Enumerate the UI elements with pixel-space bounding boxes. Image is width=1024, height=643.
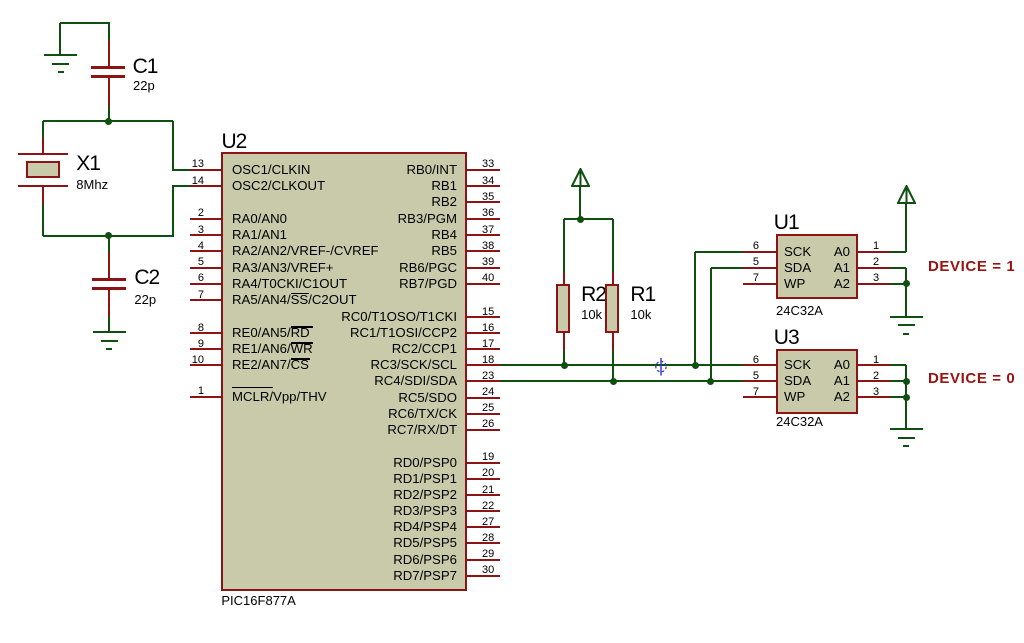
pin 19 number bbox=[482, 452, 494, 463]
pin 34 number bbox=[482, 176, 494, 187]
pin 3 number bbox=[150, 225, 204, 236]
pin label RA0/AN0 bbox=[232, 212, 287, 226]
pin 7 number bbox=[150, 290, 204, 301]
power VCC bbox=[571, 168, 590, 187]
U3 pin 5 number bbox=[705, 371, 759, 382]
label U2 bbox=[222, 131, 247, 152]
U3 pin label A1 bbox=[800, 374, 850, 388]
capacitor C1 bbox=[108, 40, 110, 67]
pin label RB4 bbox=[247, 228, 457, 242]
U3 pin label SCK bbox=[784, 358, 811, 372]
wire bbox=[42, 204, 44, 236]
pin label RB5 bbox=[247, 244, 457, 258]
wire bbox=[43, 235, 173, 237]
value 22p bbox=[134, 293, 156, 306]
label R2 bbox=[581, 284, 606, 305]
wire bbox=[890, 364, 906, 366]
pin 18 lead bbox=[465, 364, 500, 366]
pin 16 lead bbox=[465, 332, 500, 334]
pin 24 number bbox=[482, 387, 494, 398]
pin label RC5/SDO bbox=[247, 391, 457, 405]
U3 pin 6 number bbox=[705, 355, 759, 366]
pin 29 lead bbox=[465, 559, 500, 561]
junction bbox=[692, 362, 699, 369]
pin 9 lead bbox=[190, 348, 221, 350]
wire bbox=[59, 23, 61, 56]
junction bbox=[610, 378, 617, 385]
U3 pin 3 lead bbox=[856, 396, 890, 398]
wire bbox=[905, 365, 907, 381]
pin 10 number bbox=[150, 355, 204, 366]
ground bbox=[0, 0, 1, 1]
wire bbox=[695, 251, 743, 253]
pin label MCLR/Vpp/THV bbox=[232, 390, 327, 404]
pin label OSC2/CLKOUT bbox=[232, 179, 325, 193]
U3 pin 1 lead bbox=[856, 364, 890, 366]
junction bbox=[903, 378, 910, 385]
pin 40 lead bbox=[465, 283, 500, 285]
pin label RB6/PGC bbox=[247, 261, 457, 275]
pin 10 lead bbox=[190, 364, 221, 366]
pin label RC4/SDI/SDA bbox=[247, 374, 457, 388]
wire bbox=[890, 283, 906, 285]
pin 3 lead bbox=[190, 234, 221, 236]
pin 8 lead bbox=[190, 332, 221, 334]
wire bbox=[905, 268, 907, 284]
pin 2 lead bbox=[190, 218, 221, 220]
label DEVICE = 0 bbox=[928, 371, 1015, 386]
capacitor C2 bbox=[108, 236, 110, 252]
resistor R1 bbox=[612, 219, 614, 272]
pin label RC6/TX/CK bbox=[247, 407, 457, 421]
value 22p bbox=[133, 79, 155, 92]
pin 8 number bbox=[150, 323, 204, 334]
U3 pin 7 number bbox=[705, 387, 759, 398]
wire bbox=[564, 218, 613, 220]
pin 5 lead bbox=[190, 267, 221, 269]
U1 pin 7 lead bbox=[743, 283, 776, 285]
pin 29 number bbox=[482, 549, 494, 560]
wire bbox=[711, 267, 743, 269]
pin label RA3/AN3/VREF+ bbox=[232, 261, 334, 275]
pin label RD7/PSP7 bbox=[247, 569, 457, 583]
pin 19 lead bbox=[465, 462, 500, 464]
pin 14 lead bbox=[190, 185, 221, 187]
wire bbox=[172, 185, 174, 237]
U1 pin 5 lead bbox=[743, 267, 776, 269]
pin 37 number bbox=[482, 225, 494, 236]
wire bbox=[42, 121, 44, 138]
U3 pin 6 lead bbox=[743, 364, 776, 366]
pin 17 number bbox=[482, 339, 494, 350]
crystal X1 bbox=[42, 138, 44, 154]
wire bbox=[905, 203, 907, 252]
pin 7 lead bbox=[190, 299, 221, 301]
IC U3 body bbox=[776, 349, 858, 414]
pin 13 lead bbox=[190, 169, 221, 171]
pin label RD6/PSP6 bbox=[247, 553, 457, 567]
label X1 bbox=[76, 153, 100, 174]
wire bbox=[890, 396, 906, 398]
overline WR bbox=[291, 342, 313, 344]
junction bbox=[903, 280, 910, 287]
power VCC bbox=[897, 185, 916, 204]
pin 22 number bbox=[482, 501, 494, 512]
U3 pin 2 number bbox=[873, 371, 879, 382]
U3 pin label A0 bbox=[800, 358, 850, 372]
label DEVICE = 1 bbox=[928, 259, 1015, 274]
label R1 bbox=[630, 284, 655, 305]
value 10k R1 bbox=[630, 308, 651, 321]
U1 pin label A2 bbox=[800, 277, 850, 291]
pin label RC7/RX/DT bbox=[247, 423, 457, 437]
pin 23 lead bbox=[465, 380, 500, 382]
overline CS bbox=[291, 358, 310, 360]
U1 pin 7 number bbox=[705, 273, 759, 284]
pin 28 number bbox=[482, 533, 494, 544]
U3 pin 5 lead bbox=[743, 380, 776, 382]
pin 30 lead bbox=[465, 575, 500, 577]
pin label RD5/PSP5 bbox=[247, 536, 457, 550]
wire bbox=[60, 22, 110, 24]
pin 20 number bbox=[482, 468, 494, 479]
pin label RB3/PGM bbox=[247, 212, 457, 226]
pin 28 lead bbox=[465, 542, 500, 544]
pin label RC1/T1OSI/CCP2 bbox=[247, 326, 457, 340]
pin label RA5/AN4/SS/C2OUT bbox=[232, 293, 357, 307]
origin marker bbox=[654, 358, 669, 376]
pin label RD4/PSP4 bbox=[247, 520, 457, 534]
wire bbox=[905, 284, 907, 317]
pin label RB0/INT bbox=[247, 163, 457, 177]
wire bbox=[905, 381, 907, 397]
value 24C32A U1 bbox=[776, 304, 823, 317]
value 24C32A U3 bbox=[776, 415, 823, 428]
U3 pin 1 number bbox=[873, 355, 879, 366]
pin 30 number bbox=[482, 565, 494, 576]
pin label RD1/PSP1 bbox=[247, 472, 457, 486]
U3 pin 3 number bbox=[873, 387, 879, 398]
pin 23 number bbox=[482, 371, 494, 382]
pin label RC0/T1OSO/T1CKI bbox=[247, 310, 457, 324]
resistor R2 bbox=[563, 219, 565, 272]
pin label RD0/PSP0 bbox=[247, 456, 457, 470]
U1 pin 2 lead bbox=[856, 267, 890, 269]
ground bbox=[0, 0, 1, 1]
pin 15 number bbox=[482, 307, 494, 318]
pin 6 number bbox=[150, 273, 204, 284]
pin 21 number bbox=[482, 485, 494, 496]
pin 4 lead bbox=[190, 250, 221, 252]
U3 pin label WP bbox=[784, 390, 805, 404]
pin label RE0/AN5/RD bbox=[232, 326, 310, 340]
U1 pin 2 number bbox=[873, 257, 879, 268]
pin 22 lead bbox=[465, 510, 500, 512]
pin 2 number bbox=[150, 208, 204, 219]
pin 25 lead bbox=[465, 413, 500, 415]
pin 15 lead bbox=[465, 316, 500, 318]
value 8Mhz bbox=[76, 178, 108, 191]
pin label RD2/PSP2 bbox=[247, 488, 457, 502]
label U3 bbox=[774, 327, 799, 348]
value PIC16F877A bbox=[221, 594, 295, 607]
pin label OSC1/CLKIN bbox=[232, 163, 310, 177]
U3 pin label A2 bbox=[800, 390, 850, 404]
U3 pin 7 lead bbox=[743, 396, 776, 398]
overline RD bbox=[291, 326, 313, 328]
pin 37 lead bbox=[465, 234, 500, 236]
wire bbox=[173, 185, 190, 187]
pin 18 number bbox=[482, 355, 494, 366]
pin label RC2/CCP1 bbox=[247, 342, 457, 356]
wire bbox=[579, 186, 581, 219]
junction bbox=[561, 362, 568, 369]
wire SCL bus bbox=[500, 364, 743, 366]
pin 24 lead bbox=[465, 397, 500, 399]
U3 pin 2 lead bbox=[856, 380, 890, 382]
U1 pin 1 lead bbox=[856, 251, 890, 253]
pin 9 number bbox=[150, 339, 204, 350]
overline SS bbox=[291, 293, 309, 295]
U1 pin 6 number bbox=[705, 241, 759, 252]
pin 5 number bbox=[150, 257, 204, 268]
wire bbox=[108, 106, 110, 121]
wire bbox=[172, 121, 174, 170]
junction bbox=[105, 232, 112, 239]
IC U1 body bbox=[776, 234, 858, 299]
U1 pin label A1 bbox=[800, 261, 850, 275]
pin label RC3/SCK/SCL bbox=[247, 358, 457, 372]
pin 16 number bbox=[482, 323, 494, 334]
wire bbox=[890, 267, 906, 269]
pin label RD3/PSP3 bbox=[247, 504, 457, 518]
pin 1 lead bbox=[190, 396, 221, 398]
pin 20 lead bbox=[465, 478, 500, 480]
pin 35 number bbox=[482, 192, 494, 203]
junction bbox=[707, 378, 714, 385]
wire bbox=[43, 120, 173, 122]
IC U2 body bbox=[221, 152, 467, 591]
pin 27 lead bbox=[465, 526, 500, 528]
wire bbox=[108, 317, 110, 333]
junction bbox=[903, 394, 910, 401]
pin 38 lead bbox=[465, 250, 500, 252]
pin 21 lead bbox=[465, 494, 500, 496]
pin 27 number bbox=[482, 517, 494, 528]
label C1 bbox=[133, 56, 158, 77]
pin 13 number bbox=[150, 159, 204, 170]
U1 pin 3 lead bbox=[856, 283, 890, 285]
wire bbox=[890, 380, 906, 382]
pin 33 number bbox=[482, 159, 494, 170]
value 10k R2 bbox=[581, 308, 602, 321]
overline MCLR bbox=[232, 387, 273, 389]
pin 40 number bbox=[482, 273, 494, 284]
U3 pin label SDA bbox=[784, 374, 811, 388]
U1 pin 3 number bbox=[873, 273, 879, 284]
pin 39 number bbox=[482, 257, 494, 268]
U1 pin 5 number bbox=[705, 257, 759, 268]
wire bbox=[890, 251, 906, 253]
pin label RE1/AN6/WR bbox=[232, 342, 313, 356]
wire bbox=[905, 397, 907, 429]
U1 pin 6 lead bbox=[743, 251, 776, 253]
pin label RA1/AN1 bbox=[232, 228, 287, 242]
pin 6 lead bbox=[190, 283, 221, 285]
wire bbox=[108, 23, 110, 40]
pin label RB2 bbox=[247, 195, 457, 209]
pin label RB7/PGD bbox=[247, 277, 457, 291]
pin label RA2/AN2/VREF-/CVREF bbox=[232, 244, 379, 258]
wire bbox=[173, 169, 190, 171]
pin label RE2/AN7/CS bbox=[232, 358, 309, 372]
U1 pin label A0 bbox=[800, 245, 850, 259]
pin 34 lead bbox=[465, 185, 500, 187]
pin 1 number bbox=[150, 386, 204, 397]
pin 26 number bbox=[482, 419, 494, 430]
U1 pin 1 number bbox=[873, 241, 879, 252]
wire bbox=[710, 268, 712, 381]
pin 14 number bbox=[150, 176, 204, 187]
pin 17 lead bbox=[465, 348, 500, 350]
pin 26 lead bbox=[465, 429, 500, 431]
U1 pin label WP bbox=[784, 277, 805, 291]
U1 pin label SCK bbox=[784, 245, 811, 259]
U1 pin label SDA bbox=[784, 261, 811, 275]
pin 25 number bbox=[482, 403, 494, 414]
ground bbox=[0, 0, 1, 1]
label C2 bbox=[134, 267, 159, 288]
pin 39 lead bbox=[465, 267, 500, 269]
pin 35 lead bbox=[465, 201, 500, 203]
pin 33 lead bbox=[465, 169, 500, 171]
pin label RA4/T0CKI/C1OUT bbox=[232, 277, 347, 291]
pin label RB1 bbox=[247, 179, 457, 193]
wire bbox=[694, 252, 696, 366]
wire SDA bus bbox=[500, 380, 743, 382]
junction bbox=[577, 216, 584, 223]
junction bbox=[105, 118, 112, 125]
pin 36 lead bbox=[465, 218, 500, 220]
pin 38 number bbox=[482, 241, 494, 252]
label U1 bbox=[774, 212, 799, 233]
ground bbox=[0, 0, 1, 1]
pin 36 number bbox=[482, 208, 494, 219]
pin 4 number bbox=[150, 241, 204, 252]
